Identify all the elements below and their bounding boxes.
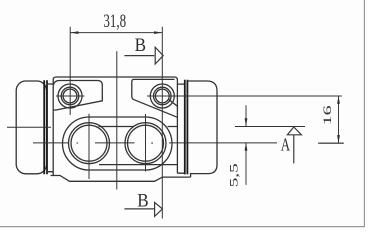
svg-text:B: B — [135, 35, 146, 56]
hole 1 inner circle — [63, 89, 77, 103]
dimension 5,5 — [245, 105, 247, 185]
left bore vertical centerline — [88, 114, 90, 179]
left dust cap — [16, 81, 46, 174]
body bottom outline — [51, 176, 191, 182]
left cap crimp lines — [44, 80, 47, 174]
hole 1 horizontal crosshair — [56, 95, 85, 97]
boss around hole 1 — [53, 81, 102, 111]
svg-text:B: B — [137, 190, 148, 211]
datum symbol A — [287, 127, 301, 163]
right bore vertical centerline — [145, 114, 147, 172]
hole 1 outer circle — [58, 84, 82, 108]
right bore inner circle — [128, 125, 164, 161]
hole 2 outer circle — [150, 84, 174, 108]
right cap crimp lines — [185, 80, 188, 175]
stadium recess outline — [63, 117, 173, 170]
right barrel stub — [177, 84, 185, 173]
hole 2 horizontal crosshair / 16 dim extension — [147, 95, 342, 97]
svg-text:16: 16 — [322, 105, 334, 125]
slot bottom edge — [99, 164, 177, 166]
svg-text:A: A — [281, 134, 290, 154]
5,5 upper reference extension line — [235, 126, 305, 128]
hole 2 middle circle — [154, 87, 172, 105]
section arrow B top — [124, 47, 163, 64]
left bore outer circle — [69, 123, 110, 164]
section arrow B bottom — [124, 202, 162, 216]
hole 1 middle circle — [61, 87, 79, 105]
centerline chain dots — [77, 142, 153, 144]
central vertical centerline — [116, 51, 118, 189]
left bore inner circle — [71, 125, 107, 161]
bore horizontal centerline (chain line with breaks at bores) — [33, 142, 344, 144]
left cap centerline — [7, 126, 51, 128]
boss around hole 2 — [132, 79, 178, 117]
body outline — [53, 77, 177, 176]
left barrel stub — [47, 84, 54, 172]
dimension 31,8 — [70, 32, 162, 34]
svg-text:5,5: 5,5 — [229, 163, 241, 187]
right bore outer circle — [125, 123, 166, 164]
dimension 16 — [319, 96, 343, 144]
svg-text:31,8: 31,8 — [103, 11, 126, 32]
right cap — [187, 81, 217, 177]
section line B-B / hole 2 vertical centerline — [161, 27, 163, 219]
slot top edge / 5,5 upper reference — [99, 126, 178, 128]
hole 1 vertical centerline / 31,8 extension — [69, 27, 71, 115]
hole 2 inner circle — [155, 89, 169, 103]
